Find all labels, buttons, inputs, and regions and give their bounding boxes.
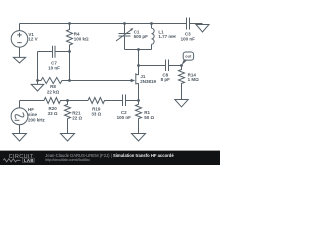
node L1 top (150, 22, 153, 25)
ground under R1 (132, 134, 146, 142)
svg-text:10 nF: 10 nF (48, 65, 60, 70)
capacitor C3 (181, 18, 196, 42)
svg-text:HF: HF (28, 107, 34, 112)
node tank bottom (137, 48, 140, 51)
node gate rail left (36, 79, 39, 82)
wire bottom rail left (20, 100, 45, 102)
transistor J1 (131, 66, 157, 101)
capacitor C2 (117, 95, 139, 120)
svg-text:out: out (185, 54, 192, 59)
resistor R8 (38, 78, 70, 95)
resistor R4 (67, 24, 90, 52)
variable capacitor C1 (116, 24, 148, 50)
svg-text:1.77 mH: 1.77 mH (158, 34, 175, 39)
svg-text:500 pF: 500 pF (134, 34, 149, 39)
node source/R1 (137, 99, 140, 102)
svg-text:22 kΩ: 22 kΩ (47, 89, 60, 94)
svg-text:sine: sine (28, 112, 38, 117)
svg-text:LAB: LAB (24, 158, 34, 163)
ground under R21 (61, 134, 75, 142)
resistor R19 (88, 98, 123, 117)
svg-text:22 Ω: 22 Ω (72, 115, 82, 120)
wire C7 left down (37, 52, 39, 81)
wire R4 node down to gate rail (69, 52, 71, 81)
capacitor C8 (161, 60, 182, 83)
svg-text:12 V: 12 V (28, 37, 37, 42)
resistor R1 (136, 101, 155, 134)
node drain (137, 64, 140, 67)
svg-text:50 Ω: 50 Ω (144, 115, 154, 120)
resistor R14 (179, 66, 200, 100)
node bottom rail R21 (66, 99, 69, 102)
ground under R14 (175, 100, 188, 107)
voltage source V1 (11, 24, 37, 58)
svg-text:1 MΩ: 1 MΩ (188, 77, 200, 82)
wire bottom rail mid (68, 100, 89, 102)
svg-text:8 pF: 8 pF (161, 77, 171, 82)
svg-text:2N3819: 2N3819 (140, 79, 156, 84)
wire tank to drain (138, 50, 140, 66)
node C7/R4 junction (68, 50, 71, 53)
inductor L1 (152, 24, 176, 50)
svg-text:200 kHz: 200 kHz (28, 118, 46, 123)
ground at gate rail left (31, 81, 44, 92)
ground top right (196, 25, 209, 33)
svg-text:http:∕∕circuitlab.com∕c∕5cd6bc: http:∕∕circuitlab.com∕c∕5cd6bc (45, 158, 90, 162)
svg-text:100 kΩ: 100 kΩ (74, 37, 89, 42)
capacitor C7 (38, 46, 70, 71)
node gate rail mid (68, 79, 71, 82)
wire gate rail (70, 80, 132, 82)
svg-text:100 nF: 100 nF (181, 36, 196, 41)
flag out (182, 52, 194, 65)
sine source HF (11, 101, 45, 134)
wire tank bottom (125, 49, 152, 51)
svg-text:100 nF: 100 nF (117, 115, 132, 120)
wire top rail right of C3 (190, 23, 203, 25)
resistor R21 (65, 101, 83, 134)
ground under V1 (13, 57, 25, 63)
node out (180, 64, 183, 67)
caption bar (0, 151, 220, 165)
resistor R20 (44, 98, 68, 117)
wire drain to C8 (139, 65, 166, 67)
node C1 top (123, 22, 126, 25)
svg-text:33 Ω: 33 Ω (91, 111, 101, 116)
ground under HF (13, 134, 27, 142)
wire top rail (20, 23, 187, 25)
svg-text:33 Ω: 33 Ω (48, 111, 58, 116)
node R4 top (68, 22, 71, 25)
